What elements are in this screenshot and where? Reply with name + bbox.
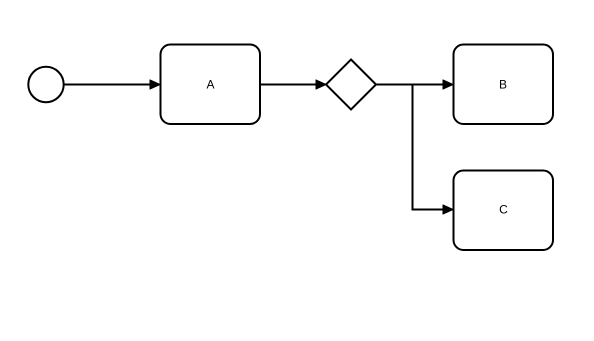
task B box (454, 45, 554, 125)
task C box (454, 171, 554, 251)
svg-text:B: B (499, 78, 507, 92)
wire gateway-to-B (376, 84, 451, 86)
arrowhead into A (150, 80, 160, 89)
wire start-to-A (65, 84, 159, 86)
arrowhead into gateway (316, 80, 326, 89)
arrowhead into B (443, 80, 453, 89)
wire A-to-gateway (260, 84, 324, 86)
arrowhead into C (443, 205, 453, 214)
wire branch down to C (413, 85, 452, 210)
start event circle (28, 67, 63, 102)
task A box (161, 45, 261, 125)
gateway diamond (326, 60, 376, 110)
svg-text:A: A (206, 78, 214, 92)
svg-text:C: C (499, 203, 508, 217)
